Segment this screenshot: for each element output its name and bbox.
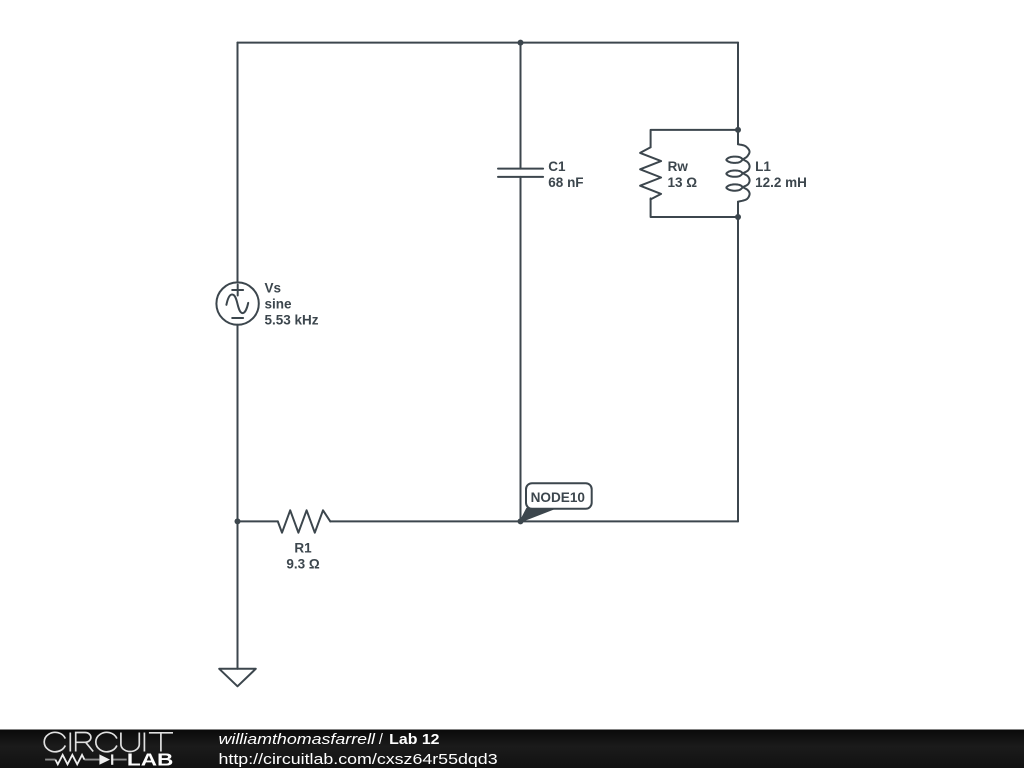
node dot parallel top bbox=[735, 127, 741, 133]
node label NODE10 tail bbox=[521, 509, 554, 522]
svg-text:williamthomasfarrell/Lab 12: williamthomasfarrell/Lab 12 bbox=[219, 732, 440, 748]
wire parallel top bbox=[651, 130, 738, 147]
resistor R1 bbox=[278, 510, 331, 532]
node dot top bbox=[518, 40, 524, 46]
wire left vertical lower bbox=[237, 325, 239, 522]
svg-text:C1: C1 bbox=[548, 159, 566, 174]
svg-text:Rw: Rw bbox=[668, 159, 689, 174]
wire C1 bottom bbox=[520, 177, 522, 522]
svg-text:68 nF: 68 nF bbox=[548, 175, 583, 190]
wire right vertical lower bbox=[737, 217, 739, 521]
svg-text:NODE10: NODE10 bbox=[531, 490, 585, 505]
wire ground stem bbox=[237, 521, 239, 668]
wire top rail bbox=[238, 42, 739, 44]
wire inductor bottom stub bbox=[737, 202, 739, 217]
svg-text:LAB: LAB bbox=[127, 751, 173, 768]
wire C1 top bbox=[520, 43, 522, 169]
ground bbox=[219, 669, 256, 687]
wire bottom left to resistor bbox=[238, 520, 278, 522]
resistor Rw bbox=[640, 147, 661, 199]
node dot parallel bottom bbox=[735, 214, 741, 220]
capacitor C1 bbox=[498, 169, 543, 177]
wire resistor to node bbox=[330, 520, 520, 522]
svg-text:sine: sine bbox=[265, 297, 293, 312]
logo squiggle wires bbox=[45, 759, 127, 761]
svg-text:Vs: Vs bbox=[265, 280, 282, 295]
wire node to bottom right bbox=[521, 520, 739, 522]
svg-text:R1: R1 bbox=[294, 540, 312, 555]
voltage source Vs bbox=[216, 282, 258, 324]
logo diode bbox=[99, 754, 110, 764]
logo resistor zigzag bbox=[55, 755, 84, 764]
wire parallel bottom bbox=[651, 198, 738, 217]
wire inductor top stub bbox=[737, 130, 739, 144]
wire right vertical upper bbox=[737, 43, 739, 130]
svg-text:12.2 mH: 12.2 mH bbox=[755, 175, 807, 190]
node dot left junction bbox=[235, 518, 241, 524]
node dot bottom NODE10 bbox=[518, 518, 524, 524]
wire left vertical upper bbox=[237, 43, 239, 283]
svg-text:http://circuitlab.com/cxsz64r5: http://circuitlab.com/cxsz64r55dqd3 bbox=[219, 752, 498, 768]
node label NODE10 box bbox=[526, 483, 592, 509]
svg-text:13 Ω: 13 Ω bbox=[668, 175, 698, 190]
logo CIRCUIT bbox=[44, 732, 173, 751]
svg-text:L1: L1 bbox=[755, 159, 771, 174]
svg-text:9.3 Ω: 9.3 Ω bbox=[286, 557, 320, 572]
svg-text:5.53 kHz: 5.53 kHz bbox=[265, 313, 319, 328]
inductor L1 bbox=[726, 144, 749, 202]
